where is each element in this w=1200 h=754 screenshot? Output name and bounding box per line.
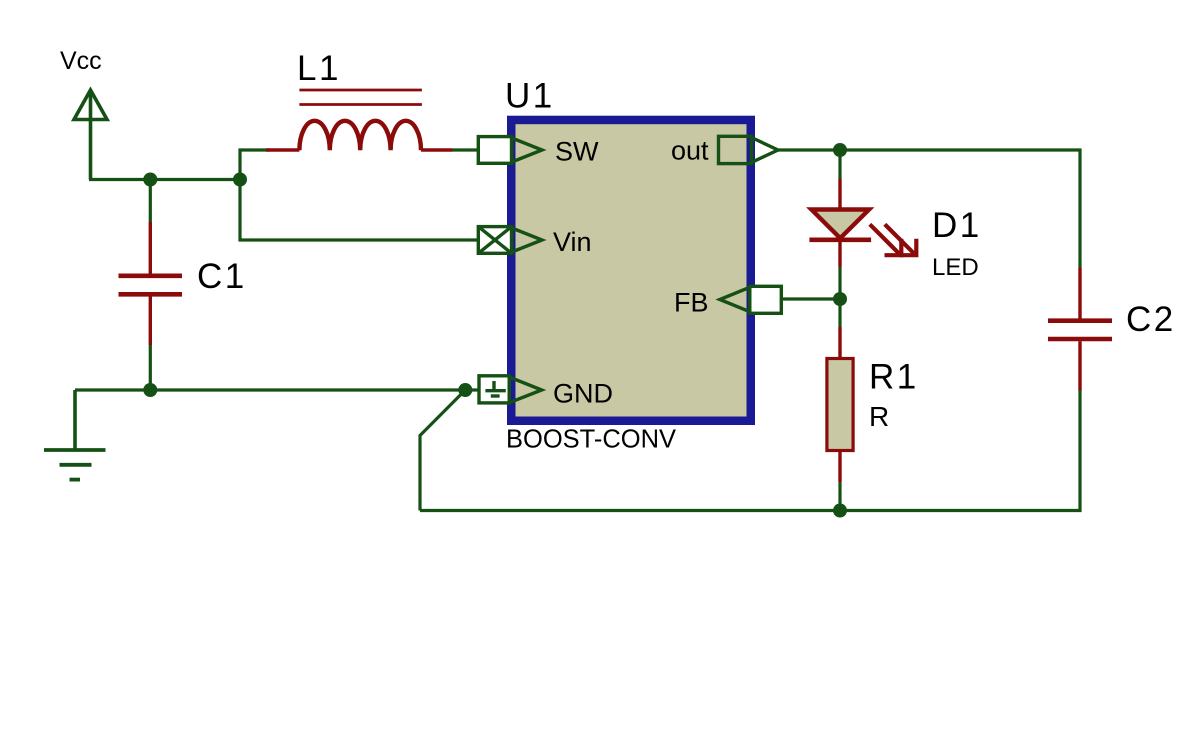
svg-text:FB: FB (674, 288, 709, 318)
junction at bottom rail (833, 504, 847, 518)
IC body U1 (511, 120, 751, 421)
svg-text:GND: GND (553, 379, 613, 409)
inductor L1 (266, 90, 453, 150)
power symbol Vcc (74, 90, 107, 180)
svg-text:R: R (869, 401, 889, 432)
svg-text:C1: C1 (197, 257, 247, 296)
svg-text:BOOST-CONV: BOOST-CONV (506, 426, 676, 454)
wire Vcc horizontal (89, 178, 242, 181)
wire to ground symbol (73, 390, 77, 450)
wire down to Vin (240, 178, 479, 240)
wire FB pin to junction (781, 297, 840, 300)
wire L1 to SW pin (452, 148, 479, 151)
wire ground row (75, 388, 479, 391)
svg-text:C2: C2 (1126, 300, 1176, 339)
svg-text:L1: L1 (297, 49, 341, 88)
svg-text:out: out (671, 136, 709, 166)
wire C2 top (1078, 149, 1081, 268)
wire up to L1 (240, 150, 270, 181)
wire D1 to FB junction (838, 267, 841, 299)
pin FB (720, 286, 782, 313)
junction at C1 top (143, 173, 157, 187)
svg-text:U1: U1 (505, 77, 555, 116)
wire GND to bottom rail (420, 390, 465, 511)
junction at FB / R1 (833, 292, 847, 306)
svg-text:D1: D1 (932, 206, 982, 245)
capacitor C2 (1048, 268, 1112, 391)
pin SW (478, 137, 542, 164)
svg-text:R1: R1 (869, 358, 919, 397)
junction at out / D1 (833, 143, 847, 157)
diode D1 LED (809, 179, 916, 267)
pin GND (479, 376, 542, 403)
svg-text:Vcc: Vcc (60, 47, 102, 75)
svg-text:SW: SW (555, 137, 599, 167)
resistor R1 (827, 327, 853, 482)
wire C2 bottom (1078, 391, 1081, 513)
junction at L1 branch (233, 173, 247, 187)
junction at C1 bottom (143, 383, 157, 397)
ground (44, 450, 106, 480)
svg-text:LED: LED (932, 254, 979, 281)
wire out pin to C2 corner (778, 148, 1082, 151)
junction at GND pin (458, 383, 472, 397)
pin out (719, 136, 779, 163)
wire R1 bottom lead (838, 482, 841, 511)
capacitor C1 (119, 180, 183, 391)
wire R1 top lead (838, 299, 841, 327)
pin Vin (478, 227, 542, 254)
wire D1 top lead (838, 150, 841, 179)
wire bottom rail (420, 509, 1082, 512)
svg-text:Vin: Vin (553, 227, 592, 257)
